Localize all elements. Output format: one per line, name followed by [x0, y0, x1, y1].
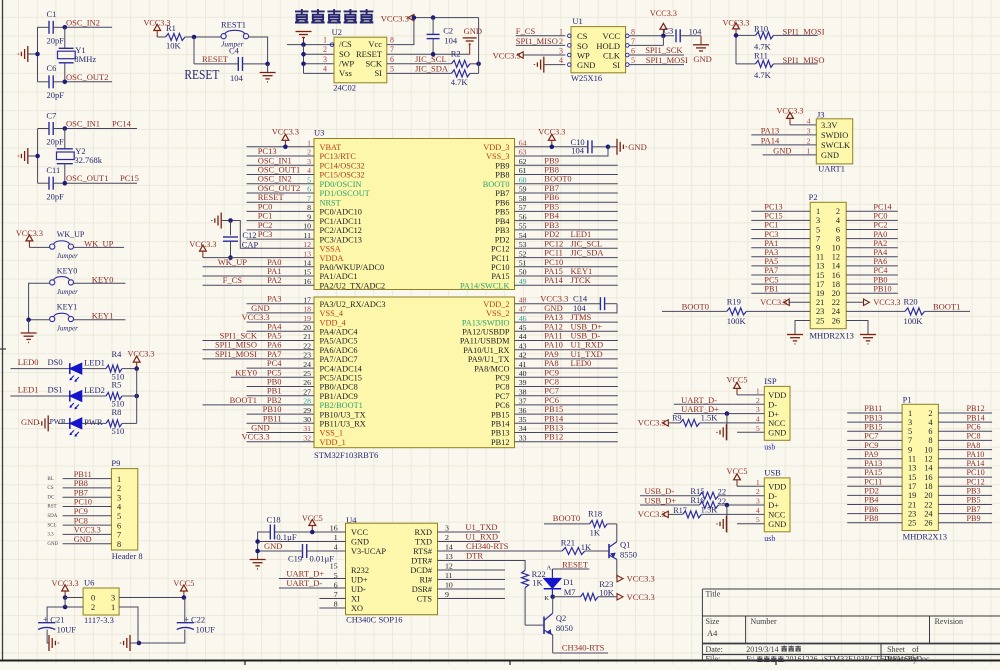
wire [726, 505, 728, 533]
wire [662, 310, 727, 312]
svg-text:PB7: PB7 [495, 189, 509, 198]
wire [29, 319, 50, 321]
junction [431, 15, 436, 20]
svg-text:26: 26 [832, 316, 840, 325]
svg-text:U1: U1 [572, 16, 582, 26]
svg-text:Q1: Q1 [620, 540, 630, 550]
junction [137, 641, 142, 646]
wire [846, 301, 863, 303]
wire [29, 246, 49, 248]
svg-text:23: 23 [303, 351, 311, 360]
svg-text:5: 5 [756, 424, 760, 433]
svg-text:30: 30 [303, 415, 311, 424]
svg-text:100K: 100K [727, 316, 747, 326]
svg-text:SI: SI [612, 60, 620, 70]
wire [63, 478, 112, 480]
svg-text:2: 2 [756, 487, 760, 496]
transistor Q1 8550 [609, 540, 637, 560]
svg-text:4: 4 [756, 414, 760, 423]
svg-text:PA4: PA4 [873, 248, 887, 257]
junction [550, 145, 555, 150]
svg-text:VCC3.3: VCC3.3 [241, 312, 269, 322]
svg-text:SO: SO [339, 49, 350, 59]
svg-text:UART_D+: UART_D+ [286, 569, 324, 579]
wire [795, 321, 810, 335]
wire [938, 513, 992, 515]
svg-text:A: A [547, 565, 552, 572]
svg-text:DTR#: DTR# [411, 557, 432, 566]
wire [737, 394, 764, 396]
svg-text:21: 21 [908, 500, 916, 509]
capacitor C7 [38, 111, 65, 147]
svg-text:0: 0 [91, 594, 95, 603]
svg-text:5: 5 [117, 512, 121, 521]
svg-text:10: 10 [924, 445, 932, 454]
crystal Y2 [57, 146, 103, 165]
svg-text:25: 25 [908, 519, 916, 528]
svg-text:SO: SO [577, 41, 588, 51]
svg-text:0.01µF: 0.01µF [310, 554, 335, 564]
wire [119, 597, 184, 599]
svg-text:F:\: F:\ [746, 655, 756, 664]
svg-text:16: 16 [330, 524, 338, 533]
wire pin16 [203, 284, 315, 286]
svg-text:GND: GND [264, 541, 282, 551]
wire pin13 [203, 257, 314, 259]
svg-text:57: 57 [519, 203, 527, 212]
svg-text:PA5: PA5 [764, 257, 778, 266]
ground GND [608, 139, 647, 155]
svg-text:5: 5 [908, 427, 912, 436]
svg-text:VCC3.3: VCC3.3 [272, 128, 299, 137]
svg-text:U1_TXD: U1_TXD [465, 522, 497, 532]
svg-text:42: 42 [519, 351, 527, 360]
svg-text:PC4/ADC14: PC4/ADC14 [320, 364, 363, 373]
svg-text:U2: U2 [332, 27, 342, 37]
svg-text:R9: R9 [672, 414, 681, 423]
wire [790, 124, 816, 126]
svg-text:18: 18 [303, 305, 311, 314]
svg-text:8: 8 [117, 540, 121, 549]
svg-text:22: 22 [832, 298, 840, 307]
ground [725, 516, 727, 532]
svg-text:4: 4 [756, 506, 760, 515]
svg-text:P1: P1 [903, 394, 912, 404]
wire [846, 256, 898, 258]
svg-text:PC9: PC9 [495, 374, 509, 383]
svg-text:JIC_SDA: JIC_SDA [415, 63, 449, 73]
svg-text:PC10: PC10 [74, 498, 92, 507]
svg-text:9: 9 [307, 212, 311, 221]
svg-text:3.3: 3.3 [47, 533, 54, 538]
svg-text:VSSA: VSSA [320, 245, 341, 254]
wire [279, 578, 346, 580]
svg-text:14: 14 [303, 259, 311, 268]
svg-text:WP: WP [577, 50, 590, 60]
svg-text:SDA: SDA [47, 514, 57, 519]
wire [515, 275, 618, 277]
svg-text:VDD_3: VDD_3 [483, 143, 509, 152]
svg-text:C4: C4 [229, 46, 240, 56]
svg-text:25: 25 [303, 369, 311, 378]
svg-text:15: 15 [303, 268, 311, 277]
wire [629, 35, 674, 37]
svg-text:U6: U6 [84, 578, 94, 588]
svg-text:USB_D+: USB_D+ [645, 496, 677, 506]
ground [860, 334, 876, 336]
svg-text:20: 20 [303, 323, 311, 332]
svg-text:RESET: RESET [356, 49, 383, 59]
svg-text:13: 13 [445, 552, 453, 561]
svg-text:14: 14 [832, 262, 841, 271]
wire [247, 395, 315, 397]
power VCC3.3 [733, 23, 740, 29]
junction [476, 62, 481, 67]
svg-text:PB10: PB10 [873, 284, 891, 293]
wire [414, 17, 479, 19]
svg-text:UART_D-: UART_D- [286, 578, 322, 588]
wire [616, 559, 618, 578]
svg-text:VSS_3: VSS_3 [486, 152, 510, 161]
svg-text:RXD: RXD [414, 528, 432, 537]
svg-text:PA3/U2_RX/ADC3: PA3/U2_RX/ADC3 [320, 300, 386, 309]
svg-text:VDD: VDD [768, 391, 786, 400]
svg-text:C12: C12 [242, 230, 256, 240]
ground [18, 46, 37, 62]
wire [304, 53, 335, 55]
svg-text:11: 11 [303, 231, 311, 240]
resistor R19 [727, 296, 811, 326]
wire [847, 439, 902, 441]
wire [751, 210, 810, 212]
svg-text:PWR: PWR [50, 417, 66, 426]
wire [247, 210, 315, 212]
wire [11, 368, 70, 370]
svg-text:PB5: PB5 [495, 208, 509, 217]
svg-text:PA0/WKUP/ADC0: PA0/WKUP/ADC0 [320, 263, 385, 272]
svg-text:SPI1_MOSI: SPI1_MOSI [646, 55, 688, 65]
svg-text:VSS_4: VSS_4 [320, 309, 344, 318]
svg-text:13: 13 [816, 262, 824, 271]
svg-text:9: 9 [816, 244, 820, 253]
junction [63, 80, 68, 85]
wire [847, 430, 902, 432]
svg-text:VDDA: VDDA [320, 254, 344, 263]
wire [751, 219, 810, 221]
svg-text:D+: D+ [768, 410, 779, 419]
power VCC3.3 [617, 574, 655, 584]
capacitor C10 [571, 137, 609, 156]
svg-text:39: 39 [519, 378, 527, 387]
svg-text:8: 8 [307, 203, 311, 212]
svg-text:GND: GND [693, 54, 711, 64]
svg-text:1K: 1K [581, 542, 592, 552]
junction [301, 62, 306, 67]
svg-text:28: 28 [303, 397, 311, 406]
svg-text:12: 12 [303, 240, 311, 249]
svg-text:PD1/OSCOUT: PD1/OSCOUT [320, 189, 370, 198]
svg-text:24: 24 [924, 509, 933, 518]
svg-text:PB12: PB12 [491, 438, 509, 447]
wire [515, 284, 618, 286]
svg-text:PB4: PB4 [495, 217, 510, 226]
svg-text:PB6: PB6 [864, 505, 878, 514]
led LED1 [70, 358, 105, 382]
svg-text:CS: CS [577, 31, 588, 41]
wire [516, 44, 566, 46]
svg-text:Q2: Q2 [556, 613, 566, 623]
svg-text:10: 10 [445, 581, 453, 590]
svg-text:8050: 8050 [556, 623, 573, 633]
junction [134, 394, 139, 399]
wire [64, 63, 66, 82]
svg-text:PC6: PC6 [967, 423, 981, 432]
wire [258, 541, 346, 543]
svg-text:/CS: /CS [339, 39, 352, 49]
svg-text:8: 8 [631, 27, 635, 36]
svg-text:BOOT0: BOOT0 [682, 301, 709, 311]
svg-text:GND: GND [821, 151, 839, 160]
svg-text:Jumper: Jumper [57, 288, 78, 296]
wire [438, 531, 501, 533]
junction [412, 15, 417, 20]
svg-text:VCC3.3: VCC3.3 [189, 240, 216, 249]
wire [846, 219, 898, 221]
svg-text:3: 3 [816, 216, 820, 225]
wire [788, 301, 810, 303]
svg-text:3: 3 [445, 524, 449, 533]
svg-text:SWCLK: SWCLK [821, 141, 850, 150]
svg-text:DC: DC [47, 495, 55, 500]
svg-text:3.3V: 3.3V [821, 121, 837, 130]
junction [192, 35, 197, 40]
wire [119, 607, 185, 643]
svg-text:PC13/RTC: PC13/RTC [320, 152, 357, 161]
svg-text:2: 2 [559, 37, 563, 46]
junction [35, 154, 40, 159]
svg-text:VCC3.3: VCC3.3 [493, 51, 521, 61]
wire [247, 192, 315, 194]
svg-text:6: 6 [928, 427, 932, 436]
svg-text:1: 1 [816, 207, 820, 216]
title block frame [702, 589, 1000, 661]
svg-text:PA14: PA14 [544, 275, 563, 285]
svg-text:PC0: PC0 [873, 212, 887, 221]
resistor R4 [106, 349, 137, 382]
junction [255, 549, 260, 554]
wire [674, 413, 764, 415]
junction [35, 52, 40, 57]
svg-text:PB7: PB7 [967, 505, 981, 514]
wire [247, 201, 315, 203]
svg-text:PA15: PA15 [491, 272, 509, 281]
wire [319, 598, 345, 600]
svg-text:11: 11 [816, 253, 824, 262]
wire [247, 174, 315, 176]
svg-text:PC11: PC11 [864, 477, 882, 486]
svg-text:CLK: CLK [603, 50, 621, 60]
wire [751, 134, 816, 136]
svg-text:20pF: 20pF [47, 36, 65, 46]
svg-text:VCC5: VCC5 [173, 579, 194, 588]
svg-text:PA11/USBDM: PA11/USBDM [460, 337, 510, 346]
connector J3 UART1 [807, 110, 853, 174]
svg-text:HOLD: HOLD [596, 41, 620, 51]
wire [846, 265, 898, 267]
wire [938, 430, 992, 432]
svg-text:27: 27 [303, 387, 311, 396]
svg-text:16: 16 [832, 271, 840, 280]
wire [515, 413, 618, 415]
capacitor C3 [663, 26, 702, 43]
wire [515, 247, 618, 249]
svg-text:Title: Title [706, 590, 721, 599]
wire [136, 369, 138, 424]
wire [63, 506, 112, 508]
svg-text:VCC3.3: VCC3.3 [74, 526, 101, 535]
svg-text:5: 5 [756, 515, 760, 524]
svg-text:SPI1_MISO: SPI1_MISO [516, 36, 558, 46]
wire [247, 155, 315, 157]
svg-text:44: 44 [519, 332, 527, 341]
svg-text:PC6: PC6 [495, 401, 509, 410]
svg-text:C2: C2 [443, 26, 453, 36]
wire [258, 550, 303, 552]
wire [63, 487, 112, 489]
wire [616, 578, 618, 580]
svg-text:PC1/ADC11: PC1/ADC11 [320, 217, 362, 226]
wire [516, 35, 566, 37]
svg-text:PB9: PB9 [967, 514, 981, 523]
svg-text:34: 34 [519, 424, 527, 433]
svg-text:32: 32 [303, 433, 311, 442]
svg-text:19: 19 [908, 491, 916, 500]
svg-text:35: 35 [519, 415, 527, 424]
svg-text:6: 6 [307, 185, 311, 194]
ic U2 24C02 [323, 27, 394, 93]
svg-text:3: 3 [117, 493, 121, 502]
wire [847, 412, 902, 414]
junction [63, 126, 68, 131]
wire [938, 439, 992, 441]
svg-text:OSC_OUT1: OSC_OUT1 [66, 173, 109, 183]
svg-text:GND: GND [351, 538, 369, 547]
svg-text:GND: GND [768, 429, 786, 438]
crystal Y1 [58, 45, 97, 64]
svg-text:/WP: /WP [339, 58, 354, 68]
svg-text:OSC_IN1: OSC_IN1 [66, 119, 100, 129]
svg-text:PA6: PA6 [873, 257, 887, 266]
connector P2 MHDR2X13 [809, 192, 854, 341]
wire [726, 414, 728, 441]
svg-text:PC13: PC13 [764, 203, 782, 212]
junction [255, 539, 260, 544]
ground [296, 31, 312, 33]
wire [515, 174, 618, 176]
svg-text:1: 1 [117, 475, 121, 484]
wire [130, 642, 139, 644]
ic U1 W25X16 [559, 16, 635, 83]
svg-text:14: 14 [924, 464, 933, 473]
resistor R9 [668, 413, 764, 427]
svg-text:R11: R11 [754, 51, 768, 61]
svg-text:1.5K: 1.5K [701, 504, 719, 514]
wire [194, 63, 238, 65]
wire [304, 72, 335, 74]
power VCC3.3 [638, 509, 669, 519]
jumper KEY1 [50, 303, 78, 333]
svg-text:PD2: PD2 [864, 487, 879, 496]
sheet border zone tick [0, 348, 6, 350]
wire [279, 587, 346, 589]
svg-text:Header 8: Header 8 [112, 551, 143, 561]
wire [751, 265, 810, 267]
svg-text:4: 4 [334, 543, 338, 552]
svg-text:510: 510 [112, 426, 125, 436]
wire [478, 18, 480, 74]
svg-text:13: 13 [303, 249, 311, 258]
wire [65, 128, 137, 130]
wire pin64 [515, 146, 588, 148]
svg-text:51: 51 [519, 259, 527, 268]
svg-text:19: 19 [303, 314, 311, 323]
svg-text:UART1: UART1 [818, 164, 845, 174]
connector P1 MHDR2X13 [902, 394, 947, 541]
svg-text:7: 7 [117, 531, 121, 540]
capacitor C2 [427, 18, 458, 55]
svg-text:2: 2 [445, 533, 449, 542]
svg-text:20: 20 [832, 289, 840, 298]
svg-text:PC8: PC8 [967, 432, 981, 441]
svg-text:4.7K: 4.7K [451, 77, 469, 87]
wire pin47 [515, 304, 618, 313]
wire [938, 412, 992, 414]
svg-text:WK_UP: WK_UP [218, 257, 248, 267]
svg-text:10UF: 10UF [57, 625, 77, 635]
svg-text:VCC3.3: VCC3.3 [638, 417, 666, 427]
svg-text:60: 60 [519, 175, 527, 184]
svg-text:1K: 1K [590, 527, 601, 537]
junction [661, 34, 666, 39]
power VCC5 [734, 474, 741, 480]
svg-text:USB: USB [764, 467, 781, 477]
wire [751, 247, 810, 249]
wire [938, 421, 992, 423]
svg-text:SWDIO: SWDIO [821, 131, 848, 140]
wire [387, 18, 414, 45]
svg-text:SCL: SCL [47, 523, 56, 528]
svg-text:62: 62 [519, 157, 527, 166]
wire [525, 624, 544, 626]
wire [287, 44, 334, 46]
svg-text:49: 49 [519, 277, 527, 286]
wire [515, 386, 618, 388]
svg-text:BL: BL [47, 477, 53, 482]
svg-text:BOOT1: BOOT1 [933, 301, 960, 311]
svg-text:R17: R17 [673, 506, 686, 515]
svg-text:PA14/SWCLK: PA14/SWCLK [460, 281, 510, 290]
svg-text:P9: P9 [111, 458, 120, 468]
svg-text:W25X16: W25X16 [571, 73, 602, 83]
sheet border zone tick [775, 662, 777, 666]
svg-text:41: 41 [519, 360, 527, 369]
wire [846, 229, 898, 231]
wire [275, 531, 346, 533]
svg-text:NRST: NRST [320, 198, 341, 207]
svg-text:26: 26 [924, 519, 932, 528]
svg-text:1: 1 [807, 146, 811, 155]
wire [737, 485, 764, 487]
